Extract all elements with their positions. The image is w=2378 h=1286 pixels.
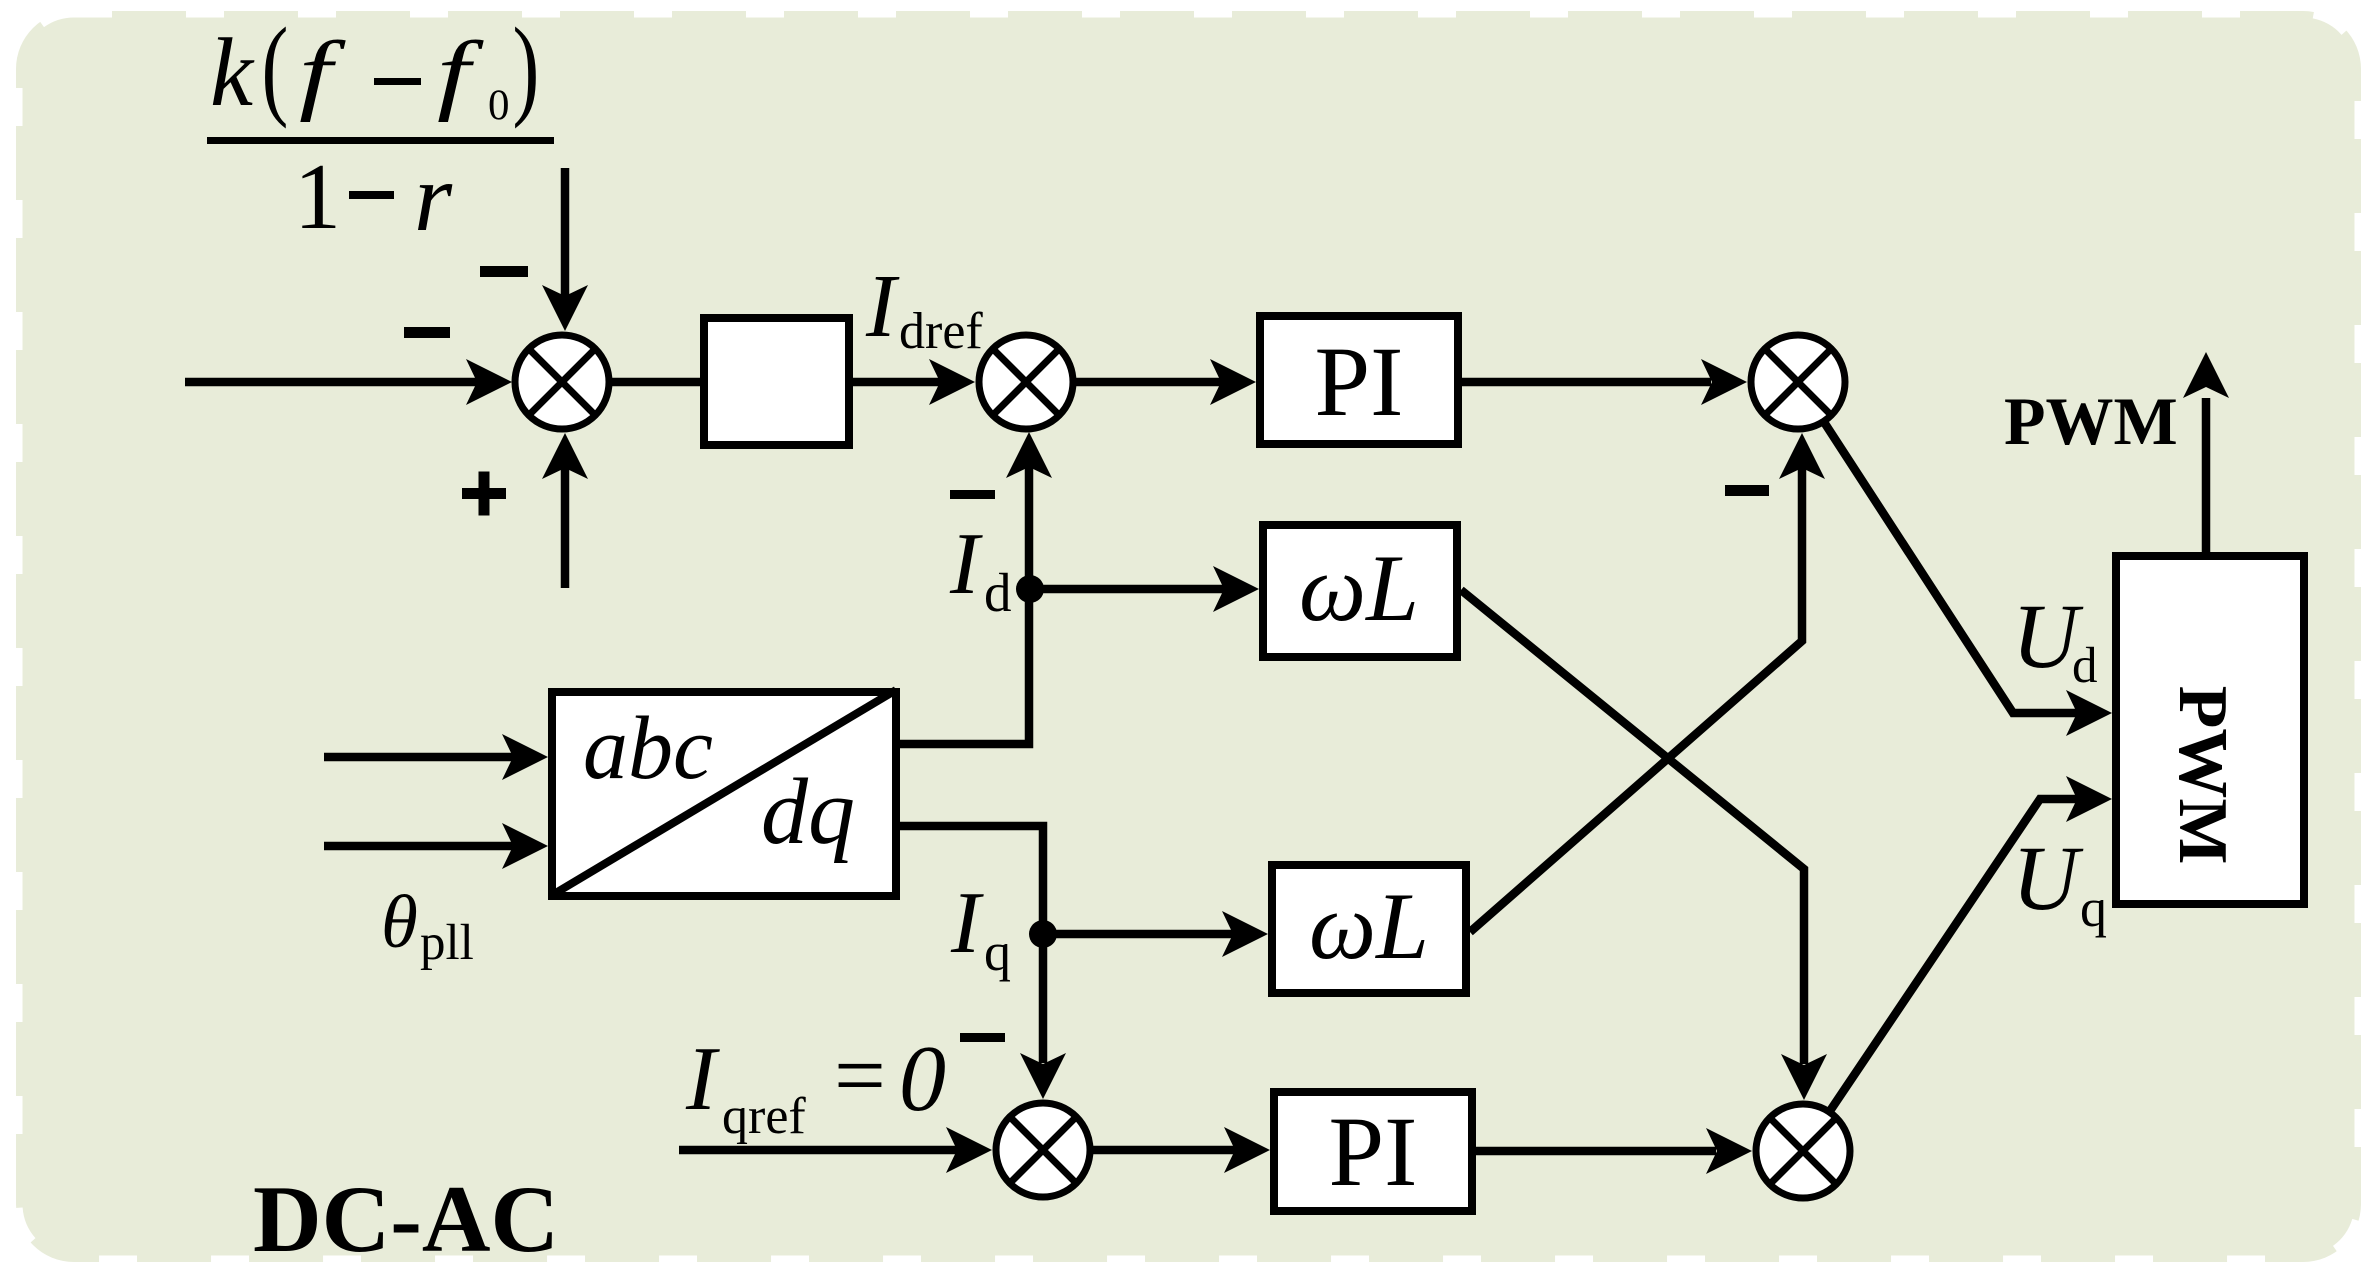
omegaL block 2 bbox=[1272, 865, 1466, 993]
wire S2 to PI1 bbox=[1026, 378, 1222, 387]
svg-text:qref: qref bbox=[722, 1088, 806, 1145]
wire Iq branch to omegaL2 bbox=[1043, 930, 1234, 939]
arrowhead into S3 bottom bbox=[1779, 433, 1825, 479]
junction dot Id bbox=[1016, 575, 1044, 603]
arrowhead into S4 left bbox=[946, 1127, 992, 1173]
summing junction S1 bbox=[515, 335, 609, 429]
junction dot Iq bbox=[1029, 920, 1057, 948]
wire input 2 into abc-dq bbox=[324, 842, 514, 851]
wire PWM output bbox=[2202, 398, 2211, 556]
arrowhead S1 bottom input bbox=[542, 433, 588, 479]
svg-text:DC-AC: DC-AC bbox=[253, 1166, 559, 1272]
arrowhead into abc-dq input1 bbox=[502, 734, 548, 780]
abc-dq transform block bbox=[552, 692, 896, 896]
wire S1 to gain block bbox=[562, 378, 704, 387]
arrowhead into S2 bbox=[929, 359, 975, 405]
arrowhead S4 top input bbox=[1020, 1053, 1066, 1099]
omegaL block 1 bbox=[1263, 525, 1457, 657]
svg-text:I: I bbox=[950, 875, 984, 972]
minus sign S2 bottom input (Id negative) bbox=[950, 490, 995, 499]
summing junction S4 bbox=[996, 1103, 1090, 1197]
wire Iqref input to S4 bbox=[679, 1146, 957, 1155]
svg-text:abc: abc bbox=[583, 699, 713, 798]
wire omegaL2 output diagonal to S3 bottom bbox=[1470, 466, 1802, 932]
svg-text:0: 0 bbox=[488, 82, 510, 129]
wire abc-dq lower output down to S4 bbox=[900, 826, 1043, 1063]
arrowhead S2 bottom input bbox=[1006, 432, 1052, 478]
svg-text:PI: PI bbox=[1315, 326, 1404, 437]
svg-text:k: k bbox=[210, 19, 255, 126]
minus sign S4 top input (Iq negative) bbox=[960, 1033, 1005, 1042]
svg-text:1: 1 bbox=[294, 145, 341, 249]
wire gain block to sum S2 bbox=[853, 378, 940, 387]
wire abc-dq upper output to S2 bottom bbox=[900, 466, 1029, 744]
gain block (empty) bbox=[704, 318, 849, 445]
arrowhead into omegaL2 bbox=[1222, 911, 1268, 957]
arrowhead into S5 top bbox=[1781, 1054, 1827, 1100]
svg-text:(: ( bbox=[262, 6, 289, 130]
svg-text:d: d bbox=[984, 562, 1012, 623]
svg-text:d: d bbox=[2072, 638, 2098, 694]
arrowhead into omegaL1 bbox=[1213, 566, 1259, 612]
arrowhead into S3 left bbox=[1701, 359, 1747, 405]
summing junction S3 bbox=[1751, 335, 1845, 429]
arrowhead Ud into PWM bbox=[2066, 690, 2112, 736]
svg-text:ωL: ωL bbox=[1309, 873, 1429, 979]
wire S4 to PI2 bbox=[1043, 1146, 1236, 1155]
PWM block bbox=[2116, 556, 2304, 904]
arrowhead into S5 left bbox=[1706, 1128, 1752, 1174]
svg-text:dref: dref bbox=[899, 303, 983, 360]
svg-text:PI: PI bbox=[1329, 1096, 1418, 1207]
abc-dq diagonal bbox=[554, 690, 896, 894]
svg-text:q: q bbox=[984, 922, 1011, 982]
svg-text:0: 0 bbox=[899, 1027, 946, 1131]
svg-text:): ) bbox=[513, 6, 540, 130]
minus sign S1 left input bbox=[404, 327, 450, 338]
arrowhead into abc-dq input2 bbox=[502, 823, 548, 869]
wire droop input down into S1 bbox=[561, 168, 570, 296]
svg-text:θ: θ bbox=[381, 881, 418, 964]
svg-text:q: q bbox=[2080, 878, 2107, 938]
arrowhead Uq into PWM bbox=[2066, 776, 2112, 822]
plus sign S1 bottom input bbox=[462, 472, 506, 516]
wire PI1 to sum S3 bbox=[1462, 378, 1711, 387]
minus sign S3 bottom input bbox=[1725, 485, 1769, 496]
wire plus input up into S1 bbox=[561, 468, 570, 588]
fraction bar bbox=[207, 137, 554, 144]
svg-text:I: I bbox=[949, 516, 983, 613]
wire input 1 into abc-dq bbox=[324, 753, 514, 762]
svg-text:dq: dq bbox=[761, 760, 855, 864]
wire S3 output Ud to PWM bbox=[1798, 382, 2078, 713]
svg-text:pll: pll bbox=[420, 915, 474, 971]
arrowhead S1 top input bbox=[542, 285, 588, 331]
svg-text:PWM: PWM bbox=[2004, 383, 2178, 459]
wire S5 output Uq to PWM bbox=[1803, 799, 2078, 1151]
svg-text:I: I bbox=[685, 1028, 720, 1129]
wire omegaL1 output diagonal to S5 top bbox=[1461, 590, 1804, 1064]
svg-text:I: I bbox=[865, 257, 900, 356]
svg-text:ωL: ωL bbox=[1299, 535, 1419, 641]
PI block 1 bbox=[1260, 316, 1458, 444]
arrowhead PWM output bbox=[2183, 352, 2229, 398]
minus sign S1 top input bbox=[480, 266, 528, 277]
arrowhead into PI2 bbox=[1224, 1127, 1270, 1173]
wire main input to sum S1 bbox=[185, 378, 478, 387]
summing junction S5 bbox=[1756, 1104, 1850, 1198]
arrowhead into S1 bbox=[466, 359, 512, 405]
PI block 2 bbox=[1274, 1092, 1472, 1211]
svg-text:U: U bbox=[2012, 827, 2084, 929]
summing junction S2 bbox=[979, 335, 1073, 429]
arrowhead into PI1 bbox=[1210, 359, 1256, 405]
svg-text:=: = bbox=[834, 1024, 886, 1126]
wire Id branch to omegaL1 bbox=[1029, 585, 1225, 594]
svg-text:PWM: PWM bbox=[2164, 686, 2241, 865]
wire PI2 to sum S5 bbox=[1476, 1147, 1716, 1156]
svg-text:r: r bbox=[414, 144, 453, 252]
